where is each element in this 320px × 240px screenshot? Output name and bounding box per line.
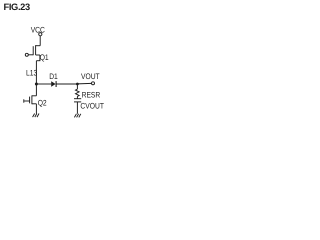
VOUT label <box>81 72 100 81</box>
svg-text:FIG.23: FIG.23 <box>4 2 30 12</box>
wire Q1 source down <box>39 55 41 61</box>
ground symbol under Q2 <box>33 114 39 118</box>
wire VCC terminal to Q1 drain <box>39 36 41 46</box>
svg-text:Q1: Q1 <box>40 53 49 62</box>
transistor Q1 gate bar <box>32 46 34 55</box>
wire rail down to Q2 <box>35 61 37 96</box>
transistor Q1 gate terminal circle <box>25 53 28 56</box>
transistor Q1 label <box>40 53 49 62</box>
wire node to VOUT terminal <box>77 82 91 85</box>
capacitor CVOUT bottom plate <box>74 101 81 103</box>
svg-text:D1: D1 <box>49 72 58 81</box>
ground symbol right <box>74 114 80 118</box>
diode D1 label <box>49 72 58 81</box>
wire jog left <box>36 60 40 62</box>
VCC terminal circle <box>39 33 42 36</box>
resistor RESR zigzag <box>76 89 80 96</box>
svg-text:L13: L13 <box>26 69 38 78</box>
wire resistor to capacitor <box>76 96 78 98</box>
capacitor CVOUT top plate <box>74 98 81 100</box>
node L13 label <box>26 69 38 78</box>
VCC label <box>31 25 45 34</box>
transistor Q2 gate bar <box>29 97 31 104</box>
transistor Q1 gate lead <box>28 54 33 56</box>
wire node to diode anode <box>36 83 51 85</box>
wire capacitor to ground <box>76 102 78 114</box>
junction node dot <box>35 83 38 86</box>
svg-text:CVOUT: CVOUT <box>80 102 104 111</box>
wire Q2 source to ground <box>35 104 37 114</box>
VOUT junction node dot <box>76 83 79 86</box>
VOUT terminal circle <box>92 82 95 85</box>
transistor Q2 gate lead <box>24 100 30 102</box>
transistor Q1 channel bar <box>35 45 37 55</box>
transistor Q2 label <box>38 98 47 107</box>
transistor Q1 top stub <box>36 45 41 47</box>
svg-text:Q2: Q2 <box>38 98 47 107</box>
resistor RESR label <box>82 90 101 99</box>
diode D1 triangle <box>51 81 55 87</box>
transistor Q2 bottom stub <box>32 103 37 105</box>
svg-text:RESR: RESR <box>82 90 101 99</box>
wire diode cathode to VOUT node <box>56 83 77 85</box>
transistor Q2 channel bar <box>31 95 33 104</box>
svg-text:VCC: VCC <box>31 25 45 34</box>
diode D1 cathode bar <box>55 81 57 87</box>
wire node down to resistor <box>76 84 78 89</box>
transistor Q1 bottom stub <box>36 54 40 56</box>
svg-text:VOUT: VOUT <box>81 72 100 81</box>
transistor Q2 gate terminal tick <box>23 99 25 102</box>
transistor Q2 top stub <box>32 95 37 97</box>
capacitor CVOUT label <box>80 102 104 111</box>
